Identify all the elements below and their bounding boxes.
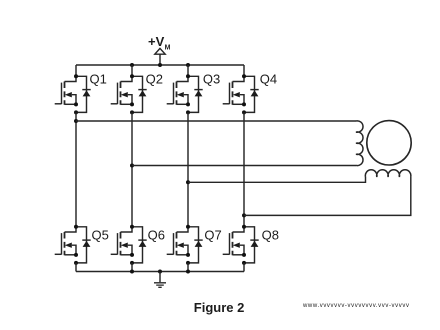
node rail-supply — [158, 63, 162, 67]
transistor Q3 — [167, 72, 221, 115]
wire half-bridge 2 vertical — [131, 112, 133, 226]
svg-text:Q7: Q7 — [204, 228, 221, 243]
svg-text:M: M — [165, 44, 171, 51]
wire rail to Q1 drain — [75, 65, 77, 76]
ground — [154, 272, 166, 288]
transistor Q1 — [55, 72, 107, 115]
inductor motor winding B — [365, 170, 411, 177]
svg-text:Q2: Q2 — [146, 72, 163, 87]
wire OUT3 to winding B left — [188, 177, 366, 182]
wire half-bridge 4 vertical — [243, 112, 245, 226]
transistor Q2 — [111, 72, 163, 115]
transistor Q6 — [111, 225, 165, 265]
wire rail to Q4 drain — [243, 65, 245, 76]
ground rail — [76, 271, 244, 273]
svg-text:+V: +V — [148, 34, 165, 49]
svg-text:www.vvvvvvv-vvvvvvvv.vvv-vvvvv: www.vvvvvvv-vvvvvvvv.vvv-vvvvv — [302, 303, 410, 309]
node rail-Q3 — [186, 63, 190, 67]
node gndrail-Q7 — [186, 270, 190, 274]
wire half-bridge 3 vertical — [187, 112, 189, 226]
svg-text:Figure 2: Figure 2 — [194, 300, 245, 315]
node OUT2 — [130, 164, 134, 168]
wire OUT1 to winding A top — [76, 120, 356, 122]
node OUT1 — [74, 119, 78, 123]
inductor motor winding A — [356, 121, 363, 166]
svg-text:Q4: Q4 — [260, 72, 277, 87]
wire rail to Q2 drain — [131, 65, 133, 76]
node OUT3 — [186, 180, 190, 184]
node gndrail-gnd — [158, 270, 162, 274]
wire half-bridge 1 vertical — [75, 112, 77, 226]
node OUT4 — [242, 213, 246, 217]
wire OUT2 to winding A bottom — [132, 165, 356, 167]
transistor Q8 — [223, 225, 279, 265]
motor rotor circle — [367, 121, 411, 165]
svg-text:Q6: Q6 — [148, 228, 165, 243]
transistor Q4 — [223, 72, 277, 115]
wire Q6 source to ground rail — [131, 263, 133, 272]
node gndrail-Q6 — [130, 270, 134, 274]
wire Q5 source to ground rail — [75, 263, 77, 272]
wire Q8 source to ground rail — [243, 263, 245, 272]
wire rail to Q3 drain — [187, 65, 189, 76]
svg-text:Q3: Q3 — [203, 72, 220, 87]
power rail +VM — [76, 64, 244, 66]
wire Q7 source to ground rail — [187, 263, 189, 272]
transistor Q5 — [55, 225, 109, 265]
node rail-Q2 — [130, 63, 134, 67]
supply symbol +VM — [148, 34, 171, 65]
svg-text:Q5: Q5 — [92, 228, 109, 243]
svg-text:Q8: Q8 — [262, 228, 279, 243]
svg-text:Q1: Q1 — [90, 72, 107, 87]
wire OUT4 to winding B right — [244, 177, 411, 216]
transistor Q7 — [167, 225, 222, 265]
